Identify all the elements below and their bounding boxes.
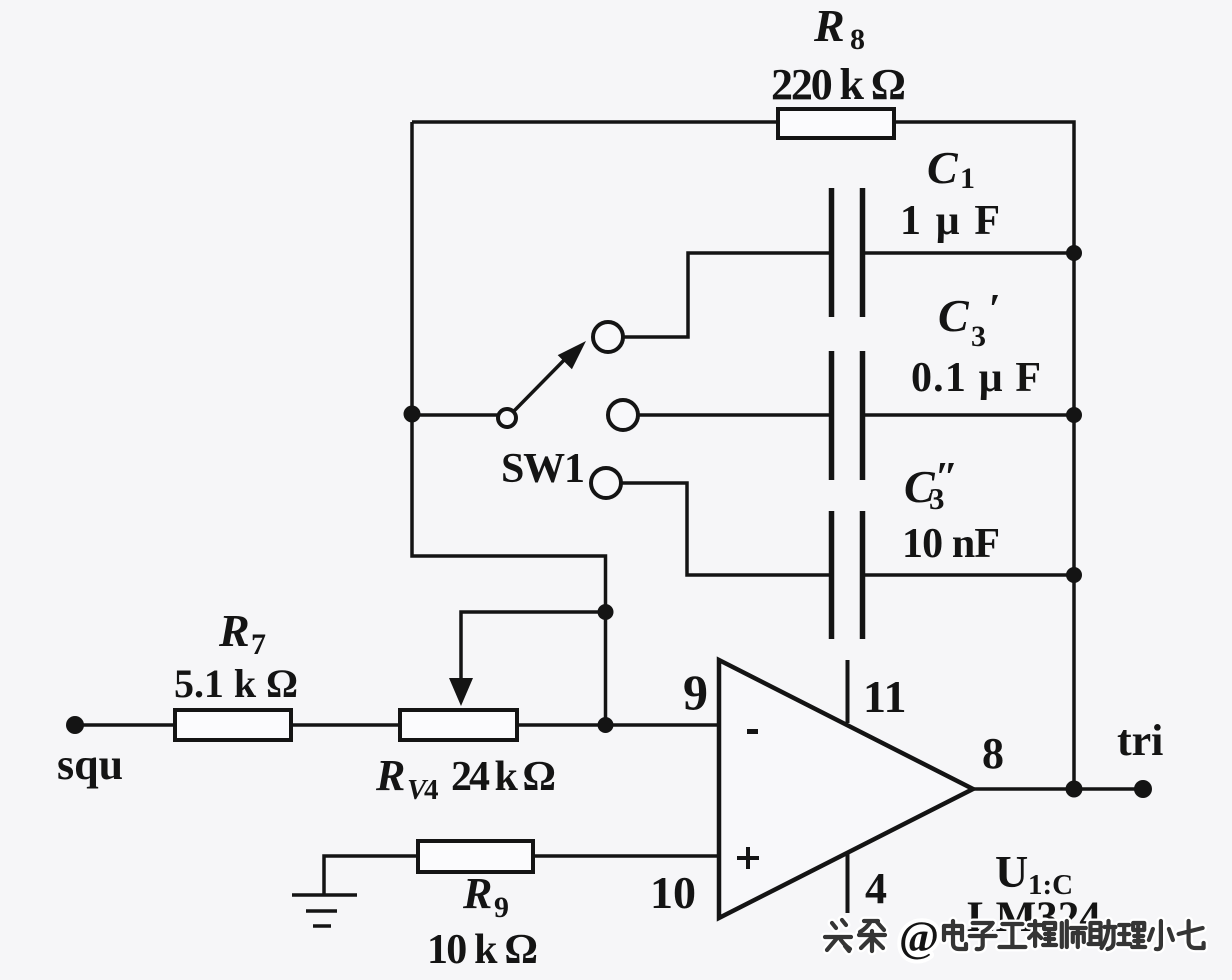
svg-text:10: 10	[650, 867, 696, 918]
svg-text:″: ″	[935, 455, 958, 501]
svg-text:1: 1	[960, 162, 975, 195]
svg-text:tri: tri	[1117, 716, 1163, 765]
svg-text:C: C	[927, 142, 959, 193]
svg-text:9: 9	[494, 891, 509, 924]
svg-text:C: C	[938, 290, 970, 341]
svg-text:1 μ F: 1 μ F	[900, 198, 1000, 244]
svg-text:R: R	[813, 0, 845, 51]
svg-text:8: 8	[982, 729, 1004, 778]
svg-text:′: ′	[989, 287, 1001, 333]
svg-text:11: 11	[863, 671, 906, 722]
svg-text:squ: squ	[57, 740, 123, 789]
svg-text:4: 4	[865, 864, 887, 913]
svg-text:0.1 μ F: 0.1 μ F	[911, 355, 1041, 401]
svg-text:SW1: SW1	[501, 446, 585, 492]
svg-text:8: 8	[850, 23, 865, 56]
svg-text:7: 7	[251, 628, 266, 661]
svg-text:3: 3	[971, 320, 986, 353]
svg-text:10 k Ω: 10 k Ω	[427, 927, 538, 973]
svg-text:4: 4	[424, 774, 439, 806]
svg-text:5.1 k Ω: 5.1 k Ω	[174, 661, 298, 706]
svg-text:10 nF: 10 nF	[902, 521, 1000, 567]
svg-text:24 k Ω: 24 k Ω	[451, 754, 556, 800]
svg-text:U: U	[995, 846, 1028, 897]
svg-text:9: 9	[683, 664, 708, 720]
svg-text:R: R	[462, 869, 492, 918]
svg-text:220 k Ω: 220 k Ω	[771, 60, 906, 109]
svg-text:R: R	[375, 751, 405, 800]
svg-text:R: R	[218, 605, 250, 656]
svg-text:@: @	[899, 914, 939, 961]
